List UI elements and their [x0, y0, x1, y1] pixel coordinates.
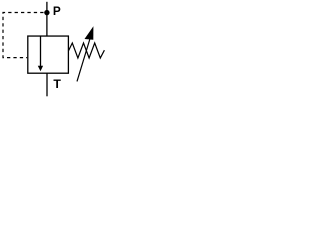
svg-text:P: P — [53, 4, 61, 18]
svg-text:T: T — [53, 77, 61, 91]
